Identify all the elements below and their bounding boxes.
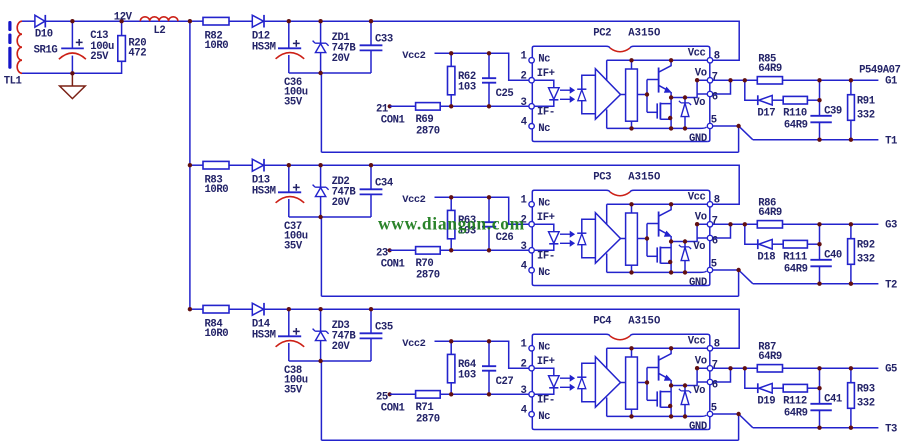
svg-text:C35: C35 (375, 322, 393, 334)
svg-text:PC3: PC3 (593, 172, 611, 184)
svg-text:R93: R93 (857, 384, 875, 396)
svg-text:64R9: 64R9 (758, 63, 782, 75)
svg-text:C26: C26 (496, 232, 514, 244)
svg-text:R91: R91 (857, 96, 875, 108)
svg-text:10R0: 10R0 (205, 328, 229, 340)
svg-text:Nc: Nc (538, 267, 550, 279)
svg-text:7: 7 (712, 71, 718, 83)
svg-text:3: 3 (521, 241, 527, 253)
svg-text:HS3M: HS3M (252, 41, 276, 53)
svg-text:D18: D18 (757, 252, 775, 264)
svg-text:Vo: Vo (693, 385, 705, 397)
svg-text:3: 3 (521, 385, 527, 397)
svg-text:A315O: A315O (628, 28, 660, 40)
svg-text:T3: T3 (885, 424, 897, 436)
svg-text:6: 6 (712, 91, 718, 103)
svg-text:Nc: Nc (538, 411, 550, 423)
svg-text:25V: 25V (90, 51, 109, 63)
svg-text:IF+: IF+ (537, 68, 555, 80)
svg-text:GND: GND (689, 277, 707, 289)
svg-text:C40: C40 (824, 249, 842, 261)
svg-text:64R9: 64R9 (758, 351, 782, 363)
svg-text:2870: 2870 (416, 414, 440, 426)
svg-text:R92: R92 (857, 240, 875, 252)
svg-text:Nc: Nc (538, 198, 550, 210)
svg-text:64R9: 64R9 (758, 207, 782, 219)
svg-text:7: 7 (712, 359, 718, 371)
svg-text:Vcc: Vcc (688, 192, 706, 204)
svg-text:C33: C33 (375, 34, 393, 46)
svg-text:64R9: 64R9 (784, 120, 808, 132)
svg-text:PC4: PC4 (593, 316, 612, 328)
svg-text:35V: 35V (284, 385, 303, 397)
svg-text:472: 472 (128, 48, 146, 60)
svg-text:2870: 2870 (416, 126, 440, 138)
svg-text:12V: 12V (114, 12, 133, 24)
svg-text:P549A07: P549A07 (859, 64, 900, 76)
svg-text:HS3M: HS3M (252, 329, 276, 341)
svg-text:Vcc: Vcc (688, 336, 706, 348)
svg-text:20V: 20V (332, 197, 351, 209)
svg-text:Vcc2: Vcc2 (402, 338, 425, 350)
svg-text:A315O: A315O (628, 316, 660, 328)
svg-text:64R9: 64R9 (784, 408, 808, 420)
svg-text:8: 8 (714, 194, 720, 206)
svg-text:IF+: IF+ (537, 356, 555, 368)
svg-text:IF-: IF- (537, 250, 555, 262)
svg-text:Nc: Nc (538, 123, 550, 135)
svg-text:8: 8 (714, 50, 720, 62)
svg-text:8: 8 (714, 338, 720, 350)
svg-text:332: 332 (857, 110, 875, 122)
svg-text:20V: 20V (332, 341, 351, 353)
svg-text:Vo: Vo (695, 355, 707, 367)
svg-text:332: 332 (857, 254, 875, 266)
svg-text:1: 1 (521, 338, 527, 350)
svg-text:G1: G1 (885, 75, 897, 87)
svg-text:1: 1 (521, 194, 527, 206)
svg-text:C27: C27 (496, 376, 514, 388)
svg-text:C34: C34 (375, 178, 394, 190)
svg-text:2870: 2870 (416, 270, 440, 282)
svg-text:Vo: Vo (695, 211, 707, 223)
svg-text:Vo: Vo (693, 97, 705, 109)
svg-text:3: 3 (521, 97, 527, 109)
svg-text:L2: L2 (154, 25, 166, 37)
svg-text:D10: D10 (35, 29, 53, 41)
svg-text:35V: 35V (284, 97, 303, 109)
svg-text:G5: G5 (885, 363, 897, 375)
svg-text:PC2: PC2 (593, 28, 611, 40)
svg-text:IF+: IF+ (537, 212, 555, 224)
svg-text:CON1: CON1 (381, 258, 405, 270)
svg-text:D19: D19 (757, 396, 775, 408)
svg-text:SR1G: SR1G (34, 44, 58, 56)
svg-text:IF-: IF- (537, 394, 555, 406)
svg-text:www.diangon.com: www.diangon.com (378, 214, 525, 234)
svg-text:103: 103 (458, 82, 476, 94)
svg-text:2: 2 (521, 71, 527, 83)
svg-text:D17: D17 (757, 108, 775, 120)
svg-text:A315O: A315O (628, 172, 660, 184)
svg-text:Nc: Nc (538, 54, 550, 66)
svg-text:Vcc2: Vcc2 (402, 50, 425, 62)
svg-text:5: 5 (711, 115, 717, 127)
svg-text:TL1: TL1 (4, 76, 22, 88)
svg-text:1: 1 (521, 50, 527, 62)
svg-text:CON1: CON1 (381, 402, 405, 414)
svg-text:HS3M: HS3M (252, 185, 276, 197)
svg-text:R70: R70 (416, 258, 434, 270)
svg-text:5: 5 (711, 403, 717, 415)
svg-text:Vcc2: Vcc2 (402, 194, 425, 206)
svg-text:R112: R112 (783, 396, 807, 408)
svg-text:20V: 20V (332, 53, 351, 65)
svg-text:64R9: 64R9 (784, 264, 808, 276)
svg-text:Vo: Vo (693, 241, 705, 253)
svg-text:10R0: 10R0 (205, 184, 229, 196)
svg-text:7: 7 (712, 215, 718, 227)
svg-text:R71: R71 (416, 402, 434, 414)
svg-text:2: 2 (521, 359, 527, 371)
svg-text:5: 5 (711, 259, 717, 271)
svg-text:GND: GND (689, 133, 707, 145)
svg-text:6: 6 (712, 379, 718, 391)
svg-text:332: 332 (857, 398, 875, 410)
svg-text:G3: G3 (885, 219, 897, 231)
svg-text:R110: R110 (783, 108, 807, 120)
svg-text:C39: C39 (824, 105, 842, 117)
svg-text:T2: T2 (885, 280, 897, 292)
svg-text:GND: GND (689, 421, 707, 433)
svg-text:T1: T1 (885, 136, 897, 148)
svg-text:CON1: CON1 (381, 114, 405, 126)
svg-text:35V: 35V (284, 241, 303, 253)
svg-text:C25: C25 (496, 88, 514, 100)
svg-text:R111: R111 (783, 252, 807, 264)
svg-text:Nc: Nc (538, 342, 550, 354)
svg-text:10R0: 10R0 (205, 40, 229, 52)
svg-text:C41: C41 (824, 393, 842, 405)
svg-text:Vcc: Vcc (688, 48, 706, 60)
svg-text:103: 103 (458, 370, 476, 382)
svg-text:R69: R69 (416, 114, 434, 126)
svg-text:IF-: IF- (537, 106, 555, 118)
svg-text:Vo: Vo (695, 67, 707, 79)
svg-text:6: 6 (712, 235, 718, 247)
